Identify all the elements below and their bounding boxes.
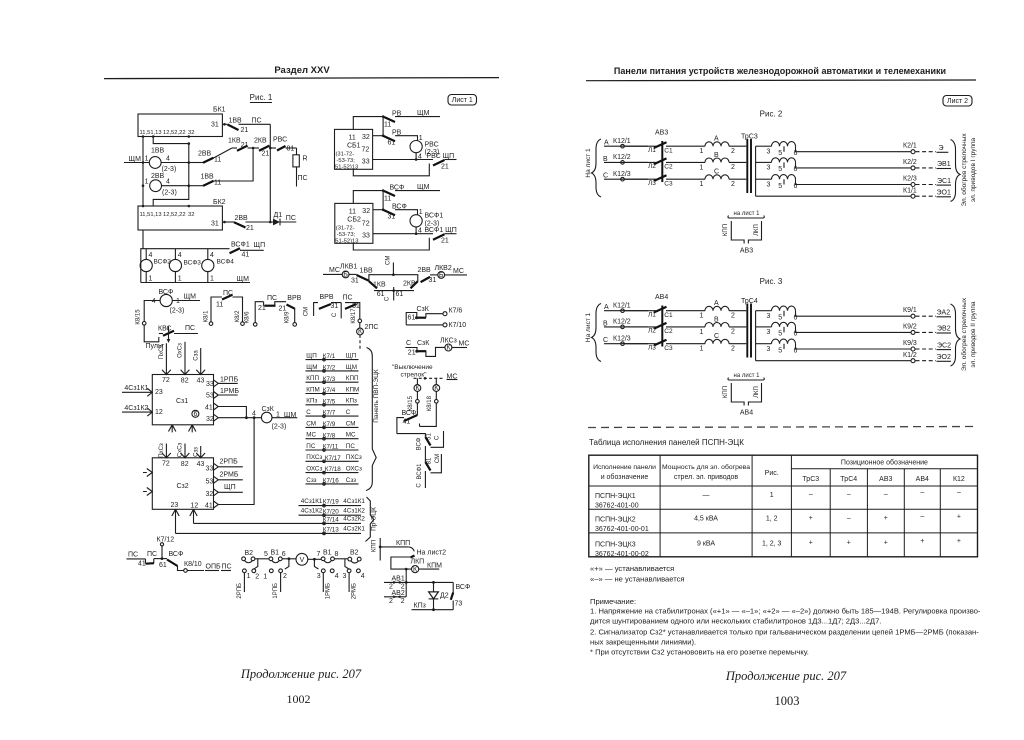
svg-text:ТрС3: ТрС3 <box>802 476 819 483</box>
wire to S/SM selector <box>397 434 426 437</box>
svg-text:СБ2: СБ2 <box>347 217 361 224</box>
svg-text:+: + <box>847 540 851 547</box>
svg-text:Э: Э <box>939 145 944 152</box>
svg-text:ВСФ1: ВСФ1 <box>425 213 444 220</box>
svg-text:5: 5 <box>778 150 782 157</box>
svg-text:(31-72-: (31-72- <box>336 226 355 232</box>
svg-text:11,51,13: 11,51,13 <box>140 130 162 136</box>
svg-text:ЩП: ЩП <box>254 242 266 249</box>
svg-text:31: 31 <box>211 221 219 228</box>
svg-text:ОХСз: ОХСз <box>306 466 322 473</box>
svg-text:АВ3: АВ3 <box>655 130 668 137</box>
svg-text:Л1: Л1 <box>648 147 656 154</box>
svg-text:ПхСз: ПхСз <box>159 443 165 458</box>
svg-text:1: 1 <box>145 156 149 163</box>
svg-text:61: 61 <box>377 291 385 298</box>
lamp LKV1 <box>342 271 349 278</box>
svg-text:К7/12: К7/12 <box>157 537 175 544</box>
svg-text:эл. приводов II группа: эл. приводов II группа <box>970 301 977 367</box>
svg-text:51-52)13: 51-52)13 <box>335 164 358 170</box>
svg-text:72: 72 <box>162 377 170 384</box>
svg-text:СМ: СМ <box>304 307 310 316</box>
contact RV(11) <box>353 117 384 130</box>
svg-text:–: – <box>847 515 851 522</box>
brace Pr-ETsK <box>366 497 374 542</box>
secondary winding 1 <box>756 310 772 312</box>
svg-text:1. Напряжение на стабилитронах: 1. Напряжение на стабилитронах («+1» — «… <box>590 607 981 616</box>
svg-text:ЩМ: ЩМ <box>184 294 197 301</box>
svg-text:2РПБ: 2РПБ <box>237 583 243 599</box>
svg-text:ЭО1: ЭО1 <box>937 190 951 197</box>
svg-text:12,52,22: 12,52,22 <box>163 212 186 218</box>
svg-text:АВ4: АВ4 <box>916 476 929 483</box>
svg-text:К8/9: К8/9 <box>284 311 290 323</box>
wire 1VV to right bus <box>161 162 189 164</box>
secondary winding 2 <box>756 161 772 163</box>
svg-text:Л3: Л3 <box>648 180 656 187</box>
svg-text:5: 5 <box>778 331 782 338</box>
svg-text:2: 2 <box>255 573 259 580</box>
svg-text:Д2: Д2 <box>440 593 449 600</box>
svg-text:1: 1 <box>149 276 153 283</box>
svg-text:Эл. обогрев стрелочных: Эл. обогрев стрелочных <box>960 297 968 371</box>
svg-text:36762-401-00: 36762-401-00 <box>595 503 639 510</box>
svg-text:К8/18: К8/18 <box>427 395 433 411</box>
svg-text:Рис. 3: Рис. 3 <box>760 277 783 286</box>
svg-text:2: 2 <box>283 573 287 580</box>
svg-text:КПП: КПП <box>306 375 319 382</box>
svg-text:СБ1: СБ1 <box>347 143 361 150</box>
top rail <box>141 249 230 283</box>
svg-text:1: 1 <box>145 179 149 186</box>
svg-text:4Сз2К2: 4Сз2К2 <box>343 516 365 523</box>
svg-text:СМ: СМ <box>435 454 441 463</box>
svg-text:Сзз: Сзз <box>306 477 316 484</box>
wire VSF1 pin4 to pin33 <box>415 227 417 234</box>
rows group 2 Pr-ETsK <box>301 498 366 533</box>
wire 2VV to right bus <box>162 185 189 187</box>
svg-text:3: 3 <box>767 149 771 156</box>
sheet box Лист 2 <box>943 96 972 107</box>
svg-text:Лист 1: Лист 1 <box>452 97 473 104</box>
svg-text:43: 43 <box>197 378 205 385</box>
svg-text:СМ: СМ <box>385 256 391 265</box>
pin 43 input Szz <box>196 446 205 458</box>
svg-text:-53-73;: -53-73; <box>337 232 356 238</box>
svg-text:5: 5 <box>778 183 782 190</box>
svg-text:51-52)13: 51-52)13 <box>335 238 358 244</box>
diode D2 <box>433 582 435 591</box>
svg-text:1: 1 <box>247 573 251 580</box>
svg-text:К1/1: К1/1 <box>903 188 917 195</box>
bottom rail <box>141 282 250 284</box>
svg-text:4Сз1К2: 4Сз1К2 <box>124 405 148 412</box>
contact 2VV(31) <box>421 277 430 282</box>
svg-text:2: 2 <box>401 598 405 605</box>
contact 1VV(31) <box>349 273 357 275</box>
svg-text:КПМ: КПМ <box>346 386 359 393</box>
svg-text:7: 7 <box>317 551 321 558</box>
svg-text:ПС: ПС <box>267 295 277 302</box>
svg-text:ВСФ: ВСФ <box>417 437 423 450</box>
svg-text:4Сз1К2: 4Сз1К2 <box>301 508 323 515</box>
svg-text:(2-3): (2-3) <box>162 166 177 173</box>
svg-text:ЭВ1: ЭВ1 <box>937 161 951 168</box>
svg-text:73: 73 <box>455 601 463 608</box>
svg-text:К8/15: К8/15 <box>408 395 414 411</box>
svg-text:Б: Б <box>439 272 444 279</box>
svg-text:5: 5 <box>778 315 782 322</box>
contact 21 on ShchP <box>433 234 445 240</box>
wire AB3 to coils <box>624 145 656 147</box>
pin 82 input OhSz <box>181 342 190 375</box>
svg-text:11: 11 <box>384 196 391 203</box>
svg-text:+: + <box>920 538 924 545</box>
svg-text:2: 2 <box>389 598 393 605</box>
contact 2VV(21) at BK2 pin31 <box>222 221 234 223</box>
svg-text:2ВВ: 2ВВ <box>235 215 249 222</box>
svg-text:+: + <box>809 540 813 547</box>
svg-text:+: + <box>957 538 961 545</box>
svg-text:ЩМ: ЩМ <box>346 364 357 371</box>
svg-text:–: – <box>847 491 851 498</box>
svg-text:ЩМ: ЩМ <box>306 364 317 371</box>
wire PS bus vertical <box>269 124 271 222</box>
svg-text:33: 33 <box>362 233 370 240</box>
svg-text:3: 3 <box>767 313 771 320</box>
svg-text:ных закрещенными линиями).: ных закрещенными линиями). <box>590 638 696 647</box>
svg-text:ВСФ2: ВСФ2 <box>154 259 172 266</box>
svg-text:ВСФ4: ВСФ4 <box>217 259 235 266</box>
contact 41 VSF1 ShchP <box>230 248 241 253</box>
svg-text:КПП: КПП <box>723 386 729 398</box>
svg-text:ОхСз: ОхСз <box>178 343 184 358</box>
wire BK2 to rail <box>142 230 144 249</box>
svg-text:8: 8 <box>335 551 339 558</box>
lamp K8/15 (vykl) <box>416 378 418 384</box>
svg-text:1: 1 <box>700 164 704 171</box>
svg-text:2ВВ: 2ВВ <box>151 173 165 180</box>
svg-text:Пр-ЭЦК: Пр-ЭЦК <box>371 507 378 531</box>
relay coil VSF1 <box>410 215 422 227</box>
block BK1 <box>138 107 226 138</box>
svg-text:С: С <box>435 435 441 440</box>
wire SM corner <box>314 303 318 316</box>
svg-text:33: 33 <box>362 159 370 166</box>
svg-text:1РПБ: 1РПБ <box>273 583 279 599</box>
svg-text:(2-3): (2-3) <box>162 190 177 197</box>
svg-text:72: 72 <box>362 147 370 154</box>
svg-text:23: 23 <box>171 502 179 509</box>
svg-text:С: С <box>306 409 311 416</box>
svg-text:4: 4 <box>166 179 170 186</box>
svg-text:СМ: СМ <box>306 420 316 427</box>
left header rule <box>104 78 499 79</box>
wire S bottom stub <box>424 471 426 488</box>
svg-text:32: 32 <box>362 208 370 215</box>
svg-text:82: 82 <box>181 377 189 384</box>
svg-text:Сзз: Сзз <box>346 477 356 484</box>
svg-text:* При отсутствии Сз2 установов: * При отсутствии Сз2 установовить на его… <box>590 648 809 657</box>
svg-text:-53-73;: -53-73; <box>337 158 356 164</box>
svg-text:К7/10: К7/10 <box>449 322 467 329</box>
svg-text:АВ4: АВ4 <box>655 294 668 301</box>
svg-text:1ВВ: 1ВВ <box>229 118 243 125</box>
svg-text:61: 61 <box>396 291 404 298</box>
svg-text:МС: МС <box>453 268 464 275</box>
svg-text:ПС: ПС <box>252 118 262 125</box>
svg-text:К9/2: К9/2 <box>903 323 917 330</box>
svg-text:ЩП: ЩП <box>346 352 357 359</box>
svg-text:Б: Б <box>343 272 348 279</box>
svg-text:КПз: КПз <box>306 398 317 405</box>
svg-text:3: 3 <box>767 182 771 189</box>
svg-text:1ВВ: 1ВВ <box>151 148 165 155</box>
svg-text:С: С <box>603 337 608 344</box>
wire AB4 to coils <box>624 310 656 312</box>
svg-text:На лист 1: На лист 1 <box>585 148 592 178</box>
svg-text:ЩП: ЩП <box>224 484 236 491</box>
svg-text:32: 32 <box>188 212 194 218</box>
svg-text:32: 32 <box>206 416 214 423</box>
svg-text:ВРВ: ВРВ <box>320 294 334 301</box>
svg-text:1КВ: 1КВ <box>228 138 241 145</box>
svg-text:61: 61 <box>388 140 396 147</box>
svg-text:(2-3): (2-3) <box>272 424 287 431</box>
svg-text:(2-3): (2-3) <box>170 308 185 315</box>
svg-text:ОХСз: ОХСз <box>346 466 362 473</box>
svg-text:ВСФ1: ВСФ1 <box>231 241 250 248</box>
svg-text:ПС: ПС <box>128 552 138 559</box>
contact VSF(11) <box>353 191 384 204</box>
contact 2KV(21) <box>252 147 255 150</box>
svg-text:9 кВА: 9 кВА <box>697 541 715 548</box>
hanging pair 1RMB (3,4) <box>314 559 318 569</box>
svg-text:11: 11 <box>349 135 356 142</box>
svg-text:С: С <box>332 312 338 317</box>
svg-text:С: С <box>346 409 351 416</box>
svg-text:2: 2 <box>731 329 735 336</box>
svg-text:–: – <box>957 490 961 497</box>
contact VSF(31) <box>384 210 396 215</box>
svg-text:На лист2: На лист2 <box>417 550 447 557</box>
svg-text:41: 41 <box>205 502 213 509</box>
svg-text:К9/1: К9/1 <box>903 307 917 314</box>
wire to B1 left <box>255 558 269 560</box>
svg-text:4: 4 <box>361 573 365 580</box>
svg-text:–: – <box>920 490 924 497</box>
svg-text:В2: В2 <box>245 550 254 557</box>
contact VSF1(81) to SM <box>424 446 426 462</box>
contact RV(61) <box>384 136 396 141</box>
secondary winding 2 <box>756 326 772 328</box>
svg-text:53: 53 <box>206 393 214 400</box>
svg-text:2РПБ: 2РПБ <box>220 458 239 465</box>
svg-text:ПС: ПС <box>346 443 356 450</box>
marker circle 6 <box>192 410 199 417</box>
relay coil VSF <box>160 294 172 306</box>
svg-text:+: + <box>809 515 813 522</box>
svg-text:21: 21 <box>241 142 249 149</box>
svg-text:ПС: ПС <box>185 325 195 332</box>
svg-text:ЩМ: ЩМ <box>417 184 430 191</box>
svg-text:2ПС: 2ПС <box>365 324 379 331</box>
svg-text:21: 21 <box>441 164 449 171</box>
svg-text:21: 21 <box>246 225 254 232</box>
svg-text:1002: 1002 <box>287 692 311 706</box>
svg-text:1ВВ: 1ВВ <box>360 268 374 275</box>
svg-text:и обозначение: и обозначение <box>601 473 649 481</box>
svg-text:КПП: КПП <box>396 540 410 547</box>
svg-text:41: 41 <box>242 251 250 258</box>
svg-text:4: 4 <box>149 252 153 259</box>
svg-text:Панели питания устройств желез: Панели питания устройств железнодорожной… <box>614 66 946 76</box>
svg-text:1ВВ: 1ВВ <box>201 174 215 181</box>
svg-text:СзК: СзК <box>417 340 430 347</box>
lamp VSF3 <box>169 259 181 271</box>
svg-text:К2/1: К2/1 <box>903 143 917 150</box>
svg-text:А: А <box>604 304 609 311</box>
svg-text:Продолжение рис. 207: Продолжение рис. 207 <box>725 669 847 683</box>
svg-text:4: 4 <box>252 411 256 418</box>
svg-text:ВСФ3: ВСФ3 <box>184 260 202 267</box>
svg-text:72: 72 <box>362 221 370 228</box>
svg-text:С3: С3 <box>664 180 673 187</box>
svg-text:82: 82 <box>181 461 189 468</box>
lamp LKSz <box>445 344 452 351</box>
svg-text:4,5 кВА: 4,5 кВА <box>694 516 718 523</box>
svg-text:К8/10: К8/10 <box>184 561 202 568</box>
svg-text:1РМБ: 1РМБ <box>326 583 332 599</box>
svg-text:АВ3: АВ3 <box>740 248 753 255</box>
svg-text:А: А <box>604 140 609 147</box>
brace Panel PVP-ETsK <box>366 348 376 491</box>
svg-text:72: 72 <box>162 461 170 468</box>
svg-text:На лист 1: На лист 1 <box>585 313 592 343</box>
svg-text:33: 33 <box>206 465 214 472</box>
contact RVS(81) <box>277 146 286 151</box>
svg-text:1: 1 <box>700 346 704 353</box>
svg-text:С: С <box>416 483 422 488</box>
pin 72 input PhSz <box>162 444 171 458</box>
svg-text:СМ: СМ <box>346 420 356 427</box>
svg-text:—: — <box>703 492 710 499</box>
svg-text:ВРВ: ВРВ <box>287 295 301 302</box>
svg-text:Рис.: Рис. <box>765 470 779 477</box>
svg-text:31: 31 <box>331 303 339 310</box>
wire SB2 bottom loop <box>353 238 429 250</box>
svg-text:Раздел XXV: Раздел XXV <box>274 65 330 76</box>
block SB2 <box>335 203 373 243</box>
svg-text:5: 5 <box>264 551 268 558</box>
svg-text:ПхСз: ПхСз <box>159 345 165 360</box>
svg-text:С1: С1 <box>664 147 673 154</box>
svg-text:стрел. эл. приводов: стрел. эл. приводов <box>674 474 739 481</box>
svg-text:ПСПН-ЭЦК2: ПСПН-ЭЦК2 <box>595 517 636 524</box>
svg-text:2КВ: 2КВ <box>403 281 416 288</box>
svg-text:11: 11 <box>384 122 391 129</box>
svg-text:81: 81 <box>427 457 433 464</box>
svg-text:2: 2 <box>731 164 735 171</box>
svg-text:Продолжение рис. 207: Продолжение рис. 207 <box>240 667 362 681</box>
svg-text:4: 4 <box>178 252 182 259</box>
right header rule <box>586 79 976 82</box>
svg-text:ПС: ПС <box>306 443 316 450</box>
svg-text:21: 21 <box>408 350 416 357</box>
svg-text:2: 2 <box>731 148 735 155</box>
svg-text:–: – <box>920 514 924 521</box>
svg-text:33: 33 <box>206 381 214 388</box>
secondary bus <box>755 311 757 361</box>
svg-text:6: 6 <box>193 411 197 418</box>
svg-text:Эл. обогрев стрелочных: Эл. обогрев стрелочных <box>960 133 968 207</box>
svg-text:АВ4: АВ4 <box>740 410 753 417</box>
svg-text:АВ3: АВ3 <box>879 476 892 483</box>
svg-text:36762-401-00-01: 36762-401-00-01 <box>595 526 649 533</box>
svg-text:ПС: ПС <box>223 290 233 297</box>
svg-text:12,52,22: 12,52,22 <box>163 130 186 136</box>
hanging pair 2RPB (1,2) <box>254 559 258 569</box>
svg-text:СзК: СзК <box>417 306 430 313</box>
svg-text:ЩП: ЩП <box>306 352 317 359</box>
dashed MS wire <box>414 377 445 379</box>
svg-text:КПз: КПз <box>414 603 426 610</box>
svg-text:41: 41 <box>138 561 146 568</box>
voltmeter V <box>296 553 308 565</box>
svg-text:В2: В2 <box>350 549 359 556</box>
svg-text:31: 31 <box>429 277 437 284</box>
svg-text:ПСПН-ЭЦК1: ПСПН-ЭЦК1 <box>595 493 636 500</box>
svg-text:ТрС4: ТрС4 <box>840 476 857 483</box>
svg-text:ТрС4: ТрС4 <box>741 298 758 305</box>
contact PS(31) <box>345 304 357 309</box>
hanging pair 2RMB (3,4) <box>345 559 349 569</box>
svg-text:Л2: Л2 <box>648 163 656 170</box>
svg-text:ЛКСз: ЛКСз <box>440 337 457 344</box>
svg-text:МС: МС <box>306 432 316 439</box>
lamp K8/18 (vykl) <box>435 378 437 384</box>
svg-text:11: 11 <box>349 209 356 216</box>
svg-text:К12: К12 <box>953 476 965 483</box>
svg-text:«+» — устанавливается: «+» — устанавливается <box>590 564 674 573</box>
svg-text:К2/3: К2/3 <box>903 175 917 182</box>
svg-text:5: 5 <box>778 348 782 355</box>
svg-text:1, 2: 1, 2 <box>766 516 778 523</box>
svg-text:3: 3 <box>767 346 771 353</box>
wire to LKP <box>391 557 412 569</box>
svg-text:ВСФ1: ВСФ1 <box>417 463 423 480</box>
svg-text:1: 1 <box>700 148 704 155</box>
svg-text:К8/6: К8/6 <box>245 311 251 323</box>
svg-text:–: – <box>809 491 813 498</box>
svg-text:ПС: ПС <box>147 551 157 558</box>
diode D1 <box>273 219 280 226</box>
svg-text:В1: В1 <box>271 550 280 557</box>
contact 1VV(11) <box>189 185 203 187</box>
svg-text:ЛКВ1: ЛКВ1 <box>340 263 357 270</box>
svg-text:R: R <box>303 156 308 163</box>
svg-text:4Сз1К2: 4Сз1К2 <box>343 508 365 515</box>
svg-text:21: 21 <box>441 238 449 245</box>
svg-text:ЛКП: ЛКП <box>754 224 760 236</box>
svg-text:31: 31 <box>211 122 219 129</box>
svg-text:2: 2 <box>731 181 735 188</box>
svg-text:1, 2, 3: 1, 2, 3 <box>762 541 782 548</box>
contact 1KV(21) <box>232 147 237 149</box>
svg-text:КПз: КПз <box>346 398 357 405</box>
svg-text:4: 4 <box>152 298 156 305</box>
svg-text:41: 41 <box>205 405 213 412</box>
